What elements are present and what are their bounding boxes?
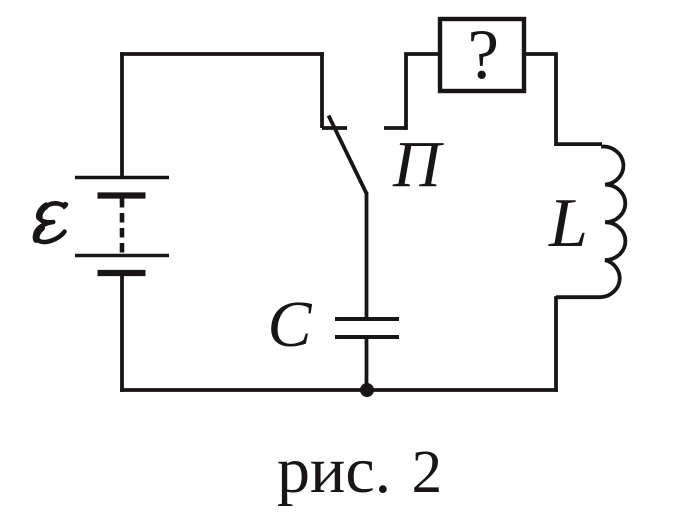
wire: top horizontal from battery branch to switch branch	[120, 52, 324, 56]
svg-text:C: C	[268, 288, 313, 361]
svg-text:П: П	[392, 128, 444, 201]
wire: left vertical from top wire down to battery top plate	[120, 52, 124, 177]
capacitor bottom lead to junction	[365, 339, 369, 390]
inductor L coil (4 bumps)	[601, 147, 625, 298]
switch P right lead: vertical up to box wire	[404, 54, 438, 130]
battery EMF source, cell 1 thick short plate	[98, 192, 146, 198]
wire: left vertical from battery bottom plate down to bottom wire	[120, 276, 124, 392]
capacitor bottom plate	[335, 335, 399, 339]
switch P right contact tick	[384, 126, 407, 130]
wire: bottom horizontal rail	[120, 388, 558, 392]
battery EMF source, cell 2 thick short plate	[98, 270, 146, 276]
switch P blade (open, tilted)	[329, 116, 367, 194]
node: junction dot at capacitor / bottom rail	[360, 383, 374, 397]
switch P left lead: vertical down and contact tick	[322, 52, 347, 128]
capacitor top lead from switch blade	[365, 192, 369, 317]
svg-text:рис.2: рис.2	[277, 434, 442, 507]
wire: inductor bottom jog and vertical down to bottom rail	[556, 296, 601, 392]
battery EMF source, cell 1 long plate	[75, 176, 169, 180]
unknown element box	[440, 19, 524, 91]
capacitor top plate	[335, 317, 399, 321]
svg-text:?: ?	[468, 16, 500, 94]
wire: from box right side to inductor branch corner	[526, 52, 602, 146]
svg-text:L: L	[548, 185, 588, 262]
battery EMF source, cell 2 long plate	[75, 254, 169, 258]
label EMF script E	[35, 203, 66, 242]
battery dashed line (omitted cells)	[120, 198, 125, 257]
